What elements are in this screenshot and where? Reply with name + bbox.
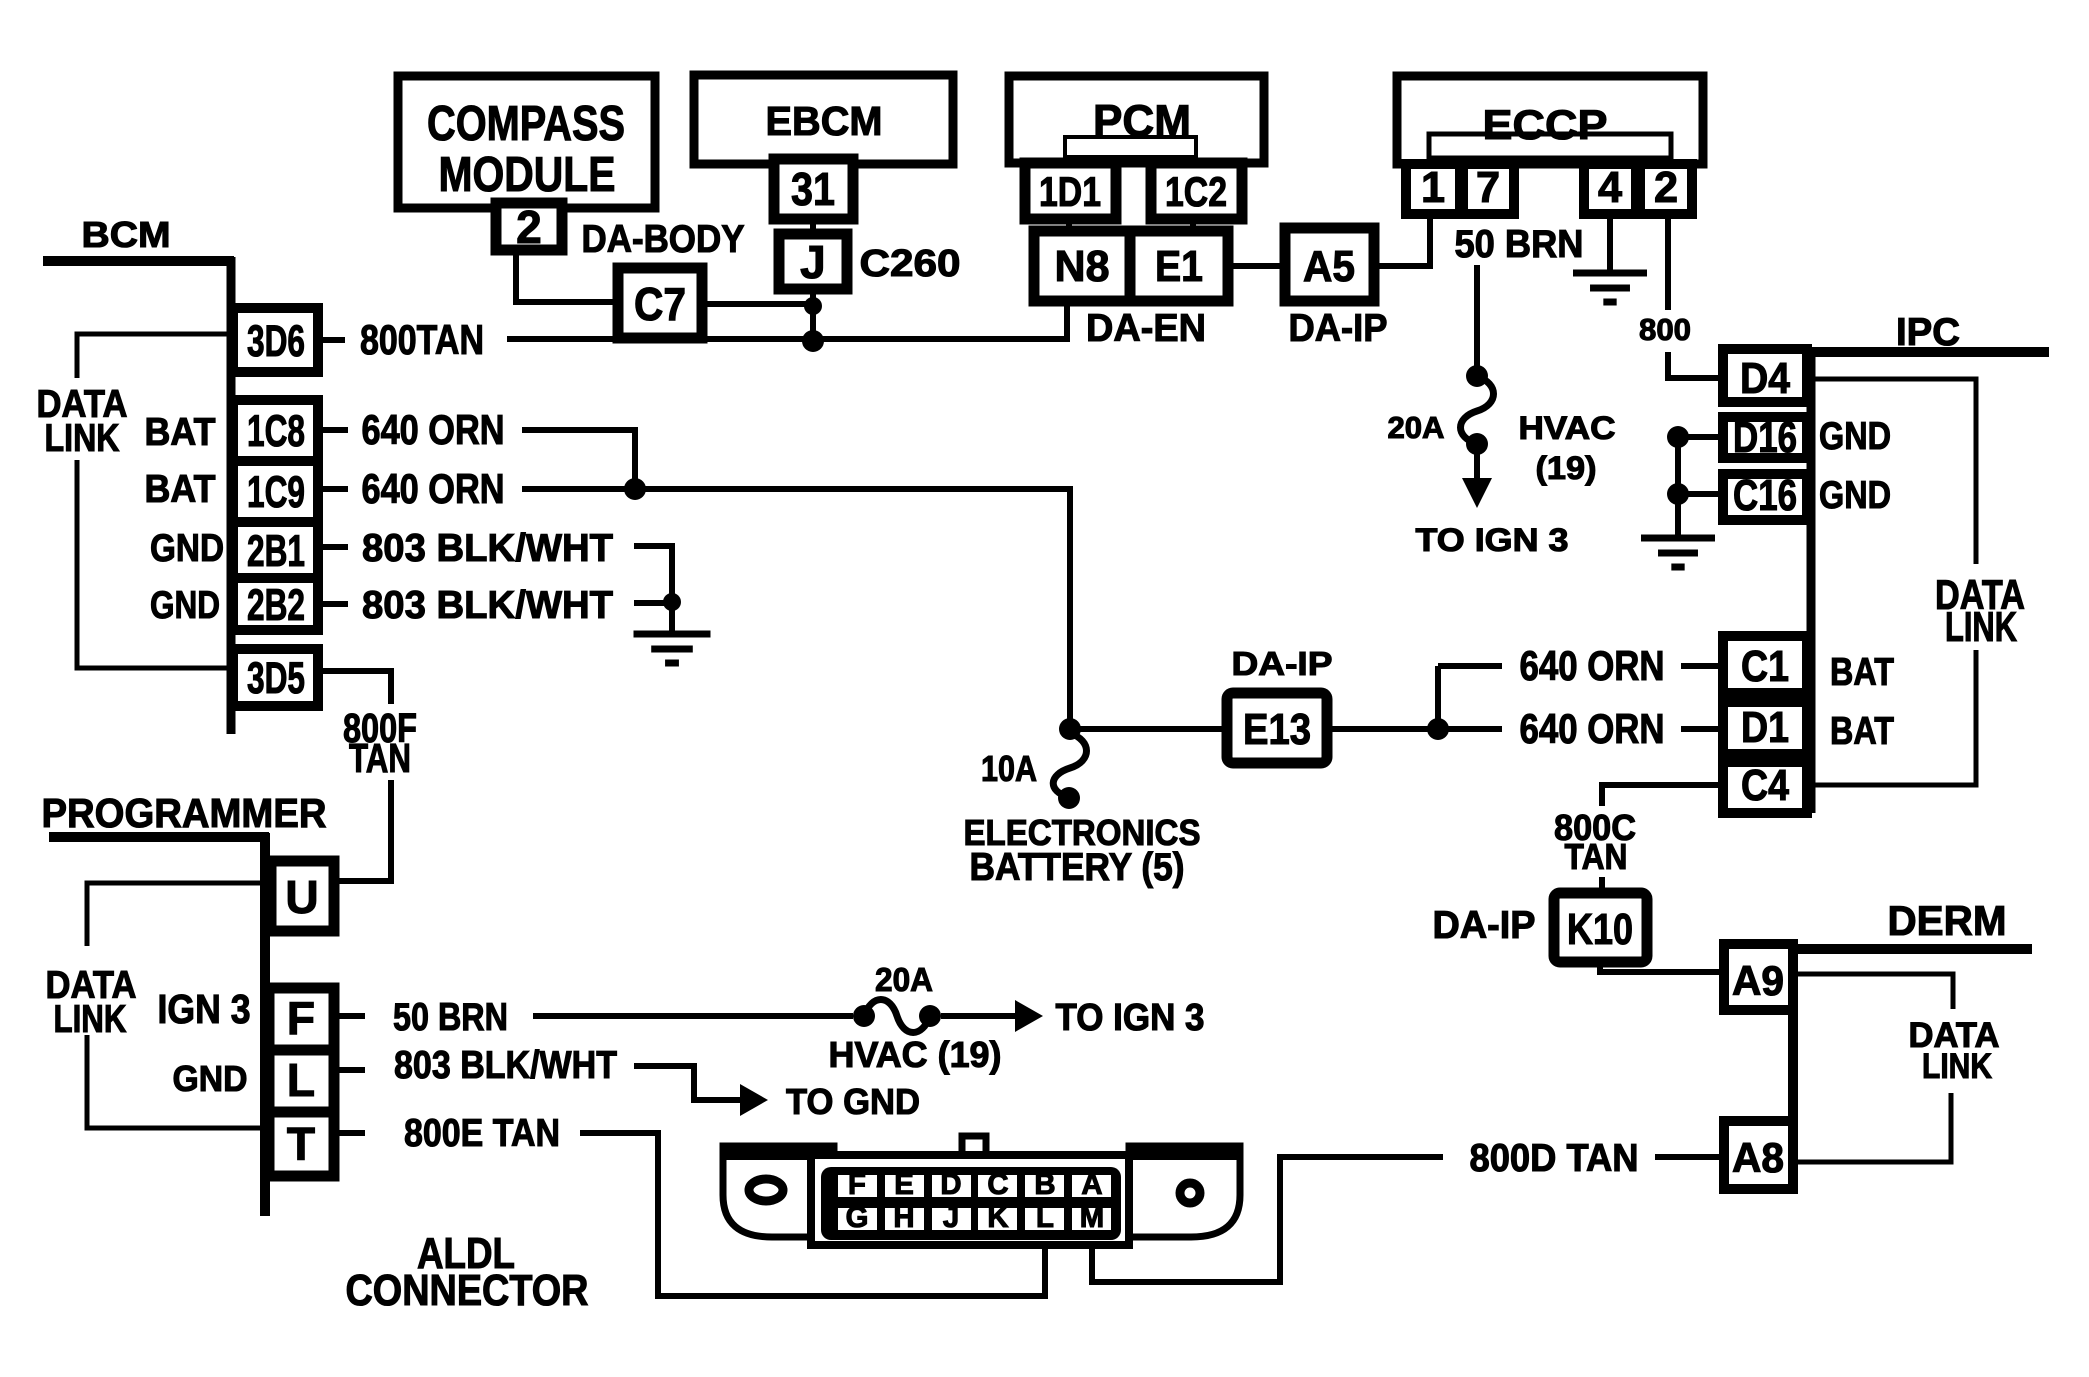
svg-text:20A: 20A <box>1388 410 1445 445</box>
svg-text:D: D <box>940 1168 961 1201</box>
svg-text:GND: GND <box>1819 415 1891 458</box>
svg-text:BCM: BCM <box>82 214 171 255</box>
svg-text:H: H <box>893 1201 914 1234</box>
svg-text:803 BLK/WHT: 803 BLK/WHT <box>362 584 613 627</box>
svg-text:TO IGN 3: TO IGN 3 <box>1056 996 1205 1038</box>
svg-text:D4: D4 <box>1740 355 1790 403</box>
svg-text:A5: A5 <box>1303 243 1355 291</box>
svg-text:50 BRN: 50 BRN <box>393 996 508 1039</box>
svg-text:10A: 10A <box>981 748 1037 789</box>
svg-text:C4: C4 <box>1741 762 1789 810</box>
svg-text:BAT: BAT <box>145 411 216 454</box>
svg-text:A8: A8 <box>1732 1134 1784 1181</box>
svg-text:TAN: TAN <box>1565 836 1628 877</box>
svg-text:BAT: BAT <box>145 468 216 511</box>
svg-text:LINK: LINK <box>45 417 120 460</box>
svg-text:2B2: 2B2 <box>247 581 305 630</box>
svg-text:M: M <box>1080 1201 1104 1234</box>
svg-text:J: J <box>943 1201 959 1234</box>
svg-text:E: E <box>894 1168 914 1201</box>
svg-text:U: U <box>285 871 318 923</box>
svg-text:PCM: PCM <box>1093 97 1191 146</box>
svg-text:BAT: BAT <box>1830 651 1894 694</box>
svg-text:DERM: DERM <box>1888 897 2007 944</box>
svg-text:PROGRAMMER: PROGRAMMER <box>42 790 327 836</box>
svg-text:TO IGN 3: TO IGN 3 <box>1416 522 1569 558</box>
svg-text:DA-IP: DA-IP <box>1433 904 1536 947</box>
svg-text:HVAC: HVAC <box>1519 410 1616 446</box>
svg-text:800D TAN: 800D TAN <box>1470 1137 1639 1180</box>
svg-text:MODULE: MODULE <box>439 148 616 202</box>
svg-text:GND: GND <box>150 527 224 570</box>
svg-text:E1: E1 <box>1155 243 1203 291</box>
svg-text:DA-IP: DA-IP <box>1289 307 1388 350</box>
svg-text:4: 4 <box>1598 164 1622 212</box>
svg-text:640 ORN: 640 ORN <box>362 465 505 512</box>
svg-text:EBCM: EBCM <box>766 98 883 144</box>
svg-text:GND: GND <box>1819 474 1891 517</box>
svg-text:CONNECTOR: CONNECTOR <box>346 1267 589 1315</box>
svg-text:C7: C7 <box>634 278 686 330</box>
svg-text:C1: C1 <box>1741 643 1789 691</box>
svg-text:F: F <box>848 1168 866 1201</box>
svg-text:BATTERY (5): BATTERY (5) <box>970 846 1185 889</box>
svg-text:C260: C260 <box>860 242 961 284</box>
svg-text:800TAN: 800TAN <box>360 316 484 363</box>
svg-text:C: C <box>987 1168 1008 1201</box>
svg-text:L: L <box>287 1054 315 1106</box>
svg-text:803 BLK/WHT: 803 BLK/WHT <box>362 527 613 570</box>
svg-text:GND: GND <box>150 584 220 627</box>
svg-text:A9: A9 <box>1732 957 1784 1004</box>
svg-text:DA-IP: DA-IP <box>1232 646 1333 683</box>
svg-text:GND: GND <box>173 1058 248 1099</box>
svg-text:COMPASS: COMPASS <box>427 97 625 151</box>
svg-text:K: K <box>987 1201 1008 1234</box>
svg-text:K10: K10 <box>1567 906 1633 954</box>
svg-text:HVAC (19): HVAC (19) <box>829 1034 1002 1075</box>
svg-text:LINK: LINK <box>1922 1047 1992 1086</box>
svg-text:3D6: 3D6 <box>247 317 305 366</box>
svg-text:LINK: LINK <box>1945 603 2017 650</box>
svg-text:31: 31 <box>791 163 835 215</box>
svg-text:640 ORN: 640 ORN <box>362 406 505 453</box>
svg-text:TAN: TAN <box>349 735 411 781</box>
svg-text:C16: C16 <box>1733 472 1797 520</box>
svg-text:640 ORN: 640 ORN <box>1520 642 1665 689</box>
svg-text:G: G <box>846 1201 869 1234</box>
svg-text:2: 2 <box>1654 164 1678 212</box>
svg-text:LINK: LINK <box>54 998 127 1041</box>
svg-text:(19): (19) <box>1536 450 1597 486</box>
svg-text:50 BRN: 50 BRN <box>1455 223 1584 266</box>
svg-text:640 ORN: 640 ORN <box>1520 705 1665 752</box>
svg-text:DA-BODY: DA-BODY <box>582 218 745 261</box>
svg-text:T: T <box>287 1118 315 1170</box>
svg-text:BAT: BAT <box>1830 710 1894 753</box>
svg-text:1C9: 1C9 <box>247 468 305 517</box>
svg-text:800E TAN: 800E TAN <box>404 1112 560 1155</box>
svg-text:20A: 20A <box>875 962 933 999</box>
svg-text:3D5: 3D5 <box>247 654 305 703</box>
svg-text:L: L <box>1036 1201 1054 1234</box>
svg-text:IGN 3: IGN 3 <box>158 986 251 1032</box>
svg-text:ECCP: ECCP <box>1483 101 1608 148</box>
svg-text:D1: D1 <box>1741 704 1789 752</box>
svg-text:TO GND: TO GND <box>786 1081 920 1122</box>
svg-text:D16: D16 <box>1733 414 1797 462</box>
svg-text:1D1: 1D1 <box>1039 168 1101 215</box>
svg-text:1C2: 1C2 <box>1165 168 1227 215</box>
svg-text:F: F <box>287 992 315 1044</box>
svg-text:1: 1 <box>1421 164 1445 212</box>
svg-text:7: 7 <box>1476 164 1500 212</box>
svg-text:DA-EN: DA-EN <box>1086 307 1206 350</box>
svg-text:1C8: 1C8 <box>247 407 305 456</box>
svg-text:2B1: 2B1 <box>247 527 305 576</box>
svg-text:2: 2 <box>516 201 542 253</box>
svg-text:J: J <box>800 236 826 288</box>
svg-text:803 BLK/WHT: 803 BLK/WHT <box>394 1044 617 1087</box>
svg-text:A: A <box>1081 1168 1102 1201</box>
svg-text:E13: E13 <box>1243 706 1311 754</box>
svg-text:B: B <box>1034 1168 1055 1201</box>
svg-text:800: 800 <box>1639 312 1691 347</box>
svg-text:N8: N8 <box>1055 243 1110 291</box>
